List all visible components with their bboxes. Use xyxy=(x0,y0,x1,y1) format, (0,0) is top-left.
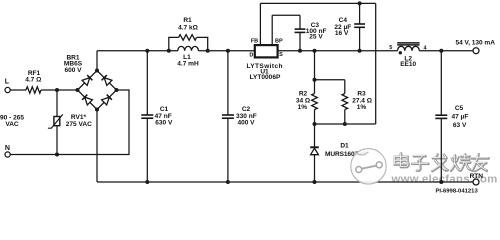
wire FB lead xyxy=(259,3,261,45)
svg-text:275 VAC: 275 VAC xyxy=(66,121,92,128)
watermark chinese characters xyxy=(395,153,489,171)
wire main rail left xyxy=(97,50,178,52)
svg-text:54 V, 130 mA: 54 V, 130 mA xyxy=(455,40,495,47)
wire BP to C3 xyxy=(272,14,300,16)
node bottom rail C1 xyxy=(145,180,149,184)
node bridge bottom xyxy=(95,108,99,112)
svg-text:C4: C4 xyxy=(339,17,348,24)
svg-text:L: L xyxy=(5,78,10,85)
svg-text:600 V: 600 V xyxy=(64,67,82,74)
svg-text:VAC: VAC xyxy=(5,121,19,128)
svg-text:4.7 mH: 4.7 mH xyxy=(177,60,199,67)
resistor RF1 xyxy=(26,87,41,93)
resistor R3 xyxy=(342,94,348,110)
L2 core bars xyxy=(397,42,419,44)
node rail R2 xyxy=(313,49,317,53)
svg-text:C1: C1 xyxy=(160,106,169,113)
svg-text:C2: C2 xyxy=(242,106,251,113)
wire RV1 branch upper xyxy=(56,90,58,117)
terminal output xyxy=(473,48,479,54)
svg-text:D: D xyxy=(249,52,253,58)
svg-text:4.7 kΩ: 4.7 kΩ xyxy=(178,25,198,32)
node rail C1 xyxy=(145,49,149,53)
wire RV1 branch lower xyxy=(56,126,58,155)
inductor L1 xyxy=(178,46,199,50)
wire RF1 to bridge xyxy=(41,89,78,91)
svg-text:D1: D1 xyxy=(340,142,349,149)
svg-text:S: S xyxy=(279,52,283,58)
svg-text:630 V: 630 V xyxy=(155,120,173,127)
op-amp U1 LYTSwitch body xyxy=(255,45,278,57)
svg-text:EE10: EE10 xyxy=(400,61,416,68)
node sense bottom R3 xyxy=(343,122,347,126)
wire R2 lower xyxy=(314,110,316,125)
node rail R1 left xyxy=(167,49,171,53)
node sense bottom left xyxy=(313,122,317,126)
svg-text:5: 5 xyxy=(389,45,392,51)
node bridge top xyxy=(95,69,99,73)
diode BR1 bottom-left xyxy=(82,95,92,105)
svg-text:1%: 1% xyxy=(298,104,308,111)
resistor R2 xyxy=(312,94,318,110)
node rail C3 xyxy=(298,49,302,53)
capacitor C2 xyxy=(227,51,229,115)
diode BR1 top-left xyxy=(82,75,92,85)
wire N line xyxy=(10,90,129,155)
wire main rail mid xyxy=(198,50,397,52)
bridge BR1 edges xyxy=(78,71,117,110)
svg-text:25 V: 25 V xyxy=(309,34,323,41)
terminal N xyxy=(5,152,10,157)
diode BR1 top-right xyxy=(102,75,112,85)
svg-text:63 V: 63 V xyxy=(453,122,467,129)
capacitor C4 xyxy=(359,3,361,24)
wire BP lead xyxy=(271,15,273,45)
wire bridge bottom stub xyxy=(96,110,98,183)
node bridge left xyxy=(76,88,80,92)
node bottom rail D1 xyxy=(313,180,317,184)
varistor RV1 xyxy=(48,114,63,128)
L2 polarity dot xyxy=(399,51,402,54)
wire L2 to output xyxy=(419,50,473,52)
wire R3 lower xyxy=(344,110,346,125)
wire bottom rail xyxy=(97,181,473,183)
svg-text:C5: C5 xyxy=(455,105,464,112)
svg-text:1%: 1% xyxy=(357,104,367,111)
node rail R1 right xyxy=(206,49,210,53)
wire L to RF1 xyxy=(10,89,26,91)
svg-text:4.7 Ω: 4.7 Ω xyxy=(25,77,41,84)
wire bridge top stub xyxy=(96,51,98,71)
svg-text:PI-6998-041213: PI-6998-041213 xyxy=(435,188,478,194)
node bridge right xyxy=(115,88,119,92)
wire sense top xyxy=(315,79,345,81)
node rail C2 xyxy=(226,49,230,53)
wire FB top xyxy=(260,2,375,4)
svg-text:LYT0006P: LYT0006P xyxy=(250,74,281,81)
wire R3 upper xyxy=(344,80,346,94)
svg-text:FB: FB xyxy=(251,39,258,45)
terminal RTN xyxy=(473,179,479,185)
diode BR1 bottom-right xyxy=(102,95,112,105)
capacitor C1 xyxy=(146,51,148,115)
svg-text:N: N xyxy=(5,145,10,152)
wire FB right drop xyxy=(375,3,377,124)
capacitor C5 xyxy=(440,51,442,116)
svg-text:R1: R1 xyxy=(183,17,192,24)
svg-text:47 µF: 47 µF xyxy=(451,113,468,120)
terminal L xyxy=(5,87,10,92)
watermark logo disc xyxy=(351,149,386,184)
svg-text:400 V: 400 V xyxy=(237,120,255,127)
wire sense bottom xyxy=(315,123,376,125)
svg-text:BP: BP xyxy=(275,39,283,45)
node RV1 top xyxy=(55,88,59,92)
node rail C5 top xyxy=(439,49,443,53)
svg-text:16 V: 16 V xyxy=(335,30,349,37)
node RV1 bottom xyxy=(55,153,59,157)
resistor R1 loop xyxy=(169,37,179,50)
diode D1 xyxy=(314,124,316,147)
inductor L2 xyxy=(398,46,420,50)
node rail C4 bottom xyxy=(358,49,362,53)
node bottom rail C5 xyxy=(439,180,443,184)
node bottom rail C2 xyxy=(226,180,230,184)
capacitor C3 xyxy=(299,15,301,29)
svg-text:RTN: RTN xyxy=(470,173,484,180)
wire R2 upper xyxy=(314,51,316,94)
node FB wire C4 top xyxy=(358,1,362,5)
node R2 top junction xyxy=(313,78,317,82)
